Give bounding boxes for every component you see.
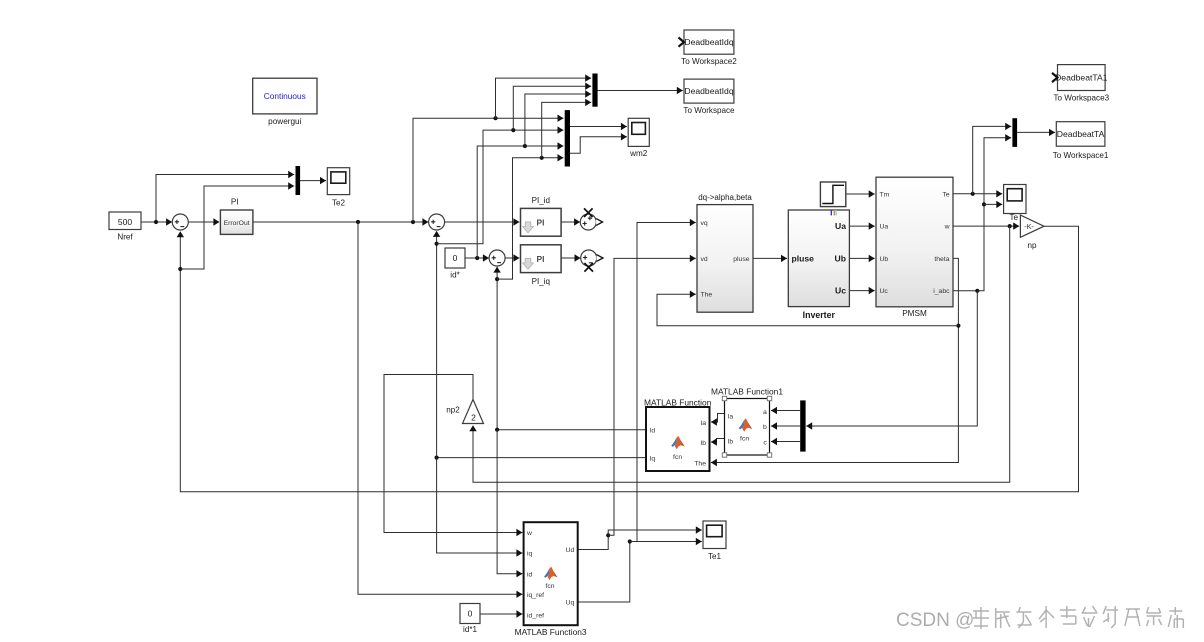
svg-text:Ud: Ud [566, 547, 575, 554]
svg-text:-K-: -K- [1024, 222, 1034, 231]
svg-text:wm2: wm2 [629, 149, 648, 158]
svg-text:b: b [763, 424, 767, 431]
svg-text:To Workspace: To Workspace [683, 106, 735, 115]
svg-text:To Workspace3: To Workspace3 [1053, 93, 1109, 102]
svg-text:powergui: powergui [268, 117, 301, 126]
svg-text:MATLAB Function3: MATLAB Function3 [515, 627, 587, 637]
svg-text:i_abc: i_abc [933, 288, 950, 295]
svg-text:Ub: Ub [835, 254, 846, 264]
svg-text:theta: theta [934, 256, 949, 263]
svg-text:DeadbeatIdq: DeadbeatIdq [684, 37, 733, 47]
svg-text:id: id [527, 571, 533, 578]
svg-text:DeadbeatTA: DeadbeatTA [1057, 129, 1105, 139]
svg-text:0: 0 [453, 253, 458, 263]
svg-text:Id: Id [650, 427, 656, 434]
svg-text:The: The [694, 460, 706, 467]
svg-text:MATLAB Function1: MATLAB Function1 [711, 387, 783, 397]
svg-text:Uq: Uq [566, 600, 575, 607]
svg-text:Te2: Te2 [332, 199, 346, 208]
svg-text:PI: PI [231, 198, 239, 207]
svg-text:Nref: Nref [117, 233, 133, 242]
svg-text:fcn: fcn [673, 454, 682, 461]
svg-text:Iq: Iq [650, 455, 656, 462]
svg-text:Te: Te [942, 192, 949, 199]
svg-text:0: 0 [468, 609, 473, 619]
svg-text:Te: Te [1010, 213, 1019, 222]
svg-text:To Workspace1: To Workspace1 [1053, 151, 1109, 160]
svg-text:ErrorOut: ErrorOut [224, 220, 250, 227]
svg-text:DeadbeatTA1: DeadbeatTA1 [1055, 73, 1108, 83]
svg-text:Continuous: Continuous [264, 91, 306, 101]
svg-text:c: c [763, 439, 767, 446]
svg-text:CSDN @: CSDN @ [896, 610, 974, 631]
svg-text:vd: vd [701, 256, 708, 263]
svg-text:iq: iq [527, 551, 533, 558]
svg-text:500: 500 [118, 217, 132, 227]
svg-text:a: a [763, 409, 767, 416]
svg-text:The: The [701, 292, 713, 299]
svg-text:Ia: Ia [728, 414, 734, 421]
svg-text:To Workspace2: To Workspace2 [681, 57, 737, 66]
svg-text:w: w [526, 530, 532, 537]
svg-text:DeadbeatIdq: DeadbeatIdq [684, 86, 733, 96]
svg-text:id*1: id*1 [463, 625, 477, 634]
svg-text:PMSM: PMSM [902, 309, 927, 318]
svg-text:fcn: fcn [545, 583, 554, 590]
svg-text:np2: np2 [446, 406, 460, 415]
svg-text:id_ref: id_ref [527, 613, 544, 620]
svg-text:fcn: fcn [740, 435, 749, 442]
svg-text:pluse: pluse [792, 254, 815, 264]
svg-text:PI: PI [537, 254, 545, 264]
svg-text:2: 2 [471, 413, 476, 423]
svg-text:PI_id: PI_id [532, 196, 550, 205]
svg-text:Ub: Ub [880, 256, 889, 263]
svg-text:Ia: Ia [700, 420, 706, 427]
svg-text:iq_ref: iq_ref [527, 592, 544, 599]
svg-text:Te1: Te1 [708, 552, 722, 561]
svg-text:Uc: Uc [880, 288, 889, 295]
svg-text:MATLAB Function: MATLAB Function [644, 397, 712, 407]
svg-text:np: np [1027, 241, 1037, 250]
svg-text:Ua: Ua [835, 221, 846, 231]
svg-text:PI: PI [537, 218, 545, 228]
svg-text:vq: vq [701, 220, 708, 227]
svg-text:id*: id* [450, 271, 460, 280]
svg-text:Ua: Ua [880, 224, 889, 231]
svg-text:Uc: Uc [835, 286, 846, 296]
svg-text:Ib: Ib [700, 440, 706, 447]
svg-text:pluse: pluse [733, 256, 749, 263]
svg-text:Tm: Tm [880, 192, 890, 199]
svg-text:Ib: Ib [728, 439, 734, 446]
svg-text:w: w [944, 224, 950, 231]
svg-text:Inverter: Inverter [803, 310, 836, 320]
svg-text:PI_iq: PI_iq [532, 277, 550, 286]
svg-text:dq->alpha,beta: dq->alpha,beta [698, 193, 752, 202]
